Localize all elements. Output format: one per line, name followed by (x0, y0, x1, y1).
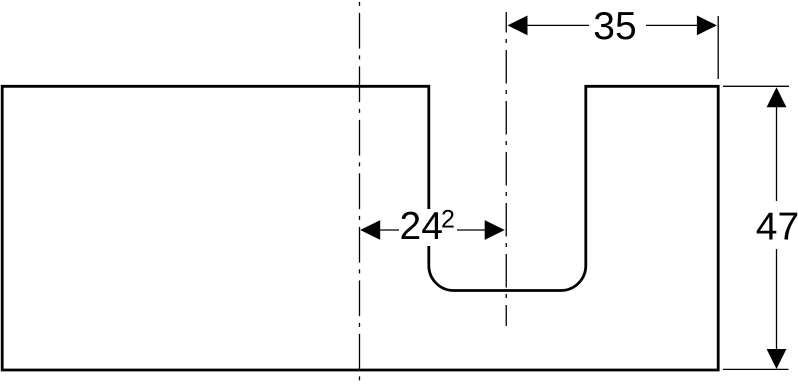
part outline with notch (2, 86, 718, 370)
svg-text:47: 47 (756, 205, 798, 248)
dim 47 arrow down (767, 349, 787, 369)
centerline left (359, 0, 361, 383)
dim 35 arrow left (508, 16, 528, 36)
svg-text:35: 35 (593, 5, 636, 48)
dim 24 line (378, 229, 399, 231)
dim 35 extension line (717, 16, 719, 79)
dim 47 arrow up (767, 87, 787, 107)
dim 47 line (776, 106, 778, 201)
centerline right (505, 12, 507, 326)
dim 35 arrow right (697, 16, 717, 36)
dim 47 extension top (723, 85, 789, 87)
wall text gap (421, 209, 437, 246)
svg-text:24: 24 (400, 205, 443, 248)
dim 24 arrow left (360, 220, 380, 240)
dim 35 line (526, 24, 589, 26)
dim 24 arrow right (485, 220, 505, 240)
svg-text:2: 2 (441, 206, 455, 234)
dim 47 extension bottom (723, 368, 789, 370)
